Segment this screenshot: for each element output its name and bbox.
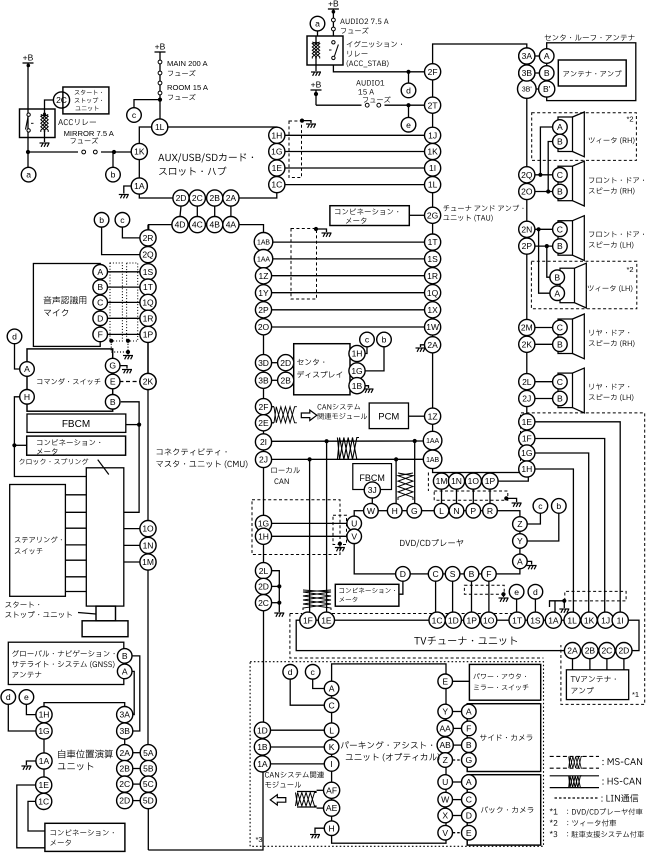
svg-text:F: F bbox=[466, 724, 471, 734]
svg-text:1R: 1R bbox=[427, 271, 438, 281]
svg-text:B: B bbox=[557, 394, 563, 404]
svg-text:1Y: 1Y bbox=[258, 288, 269, 298]
svg-text:2O: 2O bbox=[521, 187, 533, 197]
svg-text:1I: 1I bbox=[429, 163, 436, 173]
svg-text:B: B bbox=[110, 397, 116, 407]
svg-text:b: b bbox=[556, 501, 561, 511]
svg-text:3D: 3D bbox=[258, 358, 269, 368]
svg-text:2Q: 2Q bbox=[142, 250, 154, 260]
svg-text:c: c bbox=[538, 501, 543, 511]
svg-text:1G: 1G bbox=[38, 726, 49, 736]
svg-text:1S: 1S bbox=[427, 254, 438, 264]
svg-text:1J: 1J bbox=[601, 615, 610, 625]
svg-text:1L: 1L bbox=[567, 615, 577, 625]
svg-text:2D: 2D bbox=[618, 646, 629, 656]
svg-text:2E: 2E bbox=[258, 418, 269, 428]
svg-text:C: C bbox=[557, 170, 563, 180]
svg-text:2R: 2R bbox=[143, 233, 154, 243]
svg-text:1E: 1E bbox=[522, 417, 533, 427]
svg-text:5C: 5C bbox=[143, 779, 154, 789]
svg-text:L: L bbox=[439, 506, 444, 516]
svg-text:4B: 4B bbox=[209, 220, 220, 230]
svg-text:1E: 1E bbox=[38, 780, 49, 790]
svg-text:1P: 1P bbox=[485, 476, 496, 486]
svg-text:1O: 1O bbox=[142, 524, 154, 534]
svg-text:Z: Z bbox=[443, 755, 448, 765]
svg-text:1A: 1A bbox=[134, 181, 145, 191]
svg-text:+B: +B bbox=[23, 53, 34, 63]
svg-text:A: A bbox=[544, 51, 550, 61]
svg-text:C: C bbox=[557, 224, 563, 234]
svg-text:3J: 3J bbox=[368, 485, 377, 495]
svg-text:G: G bbox=[465, 755, 472, 765]
svg-text:R: R bbox=[487, 506, 493, 516]
svg-text:4C: 4C bbox=[192, 220, 203, 230]
svg-text:A: A bbox=[466, 707, 472, 717]
svg-text:2A: 2A bbox=[226, 193, 237, 203]
svg-text:A: A bbox=[97, 267, 103, 277]
svg-text:d: d bbox=[288, 667, 293, 677]
svg-text:2B: 2B bbox=[209, 193, 220, 203]
svg-text:A: A bbox=[554, 288, 560, 298]
svg-text:2A: 2A bbox=[567, 646, 578, 656]
svg-text:B: B bbox=[557, 339, 563, 349]
svg-text:1N: 1N bbox=[451, 476, 462, 486]
svg-text:A: A bbox=[517, 557, 523, 567]
svg-text:1C: 1C bbox=[432, 615, 443, 625]
svg-text:G: G bbox=[411, 506, 418, 516]
svg-text:c: c bbox=[120, 215, 125, 225]
svg-text:N: N bbox=[453, 506, 459, 516]
svg-text:c: c bbox=[132, 110, 137, 120]
svg-text:a: a bbox=[26, 170, 31, 180]
svg-text:d: d bbox=[533, 587, 538, 597]
svg-text:1H: 1H bbox=[521, 464, 532, 474]
svg-text:1L: 1L bbox=[428, 180, 438, 190]
svg-text:2D: 2D bbox=[258, 582, 269, 592]
svg-text:3B: 3B bbox=[119, 726, 130, 736]
svg-text:1G: 1G bbox=[521, 448, 532, 458]
svg-text:1D: 1D bbox=[257, 725, 268, 735]
svg-text:1Q: 1Q bbox=[142, 298, 154, 308]
svg-text:X: X bbox=[442, 811, 448, 821]
svg-text:1F: 1F bbox=[303, 615, 313, 625]
svg-text:2K: 2K bbox=[143, 377, 154, 387]
svg-text:1S: 1S bbox=[143, 267, 154, 277]
svg-text:2B: 2B bbox=[119, 764, 130, 774]
svg-text:1O: 1O bbox=[483, 615, 495, 625]
svg-text:AB: AB bbox=[440, 740, 452, 750]
svg-text:1K: 1K bbox=[427, 147, 438, 157]
svg-text:b: b bbox=[382, 335, 387, 345]
svg-text:U: U bbox=[442, 777, 448, 787]
svg-text:3B: 3B bbox=[522, 68, 533, 78]
svg-text:2I: 2I bbox=[260, 437, 267, 447]
svg-text:E: E bbox=[442, 676, 448, 686]
svg-text:D: D bbox=[466, 811, 472, 821]
svg-text:H: H bbox=[392, 506, 398, 516]
svg-text:B: B bbox=[557, 137, 563, 147]
svg-text:2K: 2K bbox=[522, 339, 533, 349]
svg-text:1G: 1G bbox=[258, 519, 269, 529]
svg-text:1H: 1H bbox=[352, 349, 363, 359]
svg-text:3B': 3B' bbox=[522, 87, 532, 94]
svg-text:H: H bbox=[24, 392, 30, 402]
svg-text:1P: 1P bbox=[466, 615, 477, 625]
svg-text:C: C bbox=[328, 700, 334, 710]
svg-text:5A: 5A bbox=[143, 748, 154, 758]
svg-text:2F: 2F bbox=[428, 67, 438, 77]
svg-text:4A: 4A bbox=[226, 220, 237, 230]
svg-text:2J: 2J bbox=[522, 394, 531, 404]
svg-text:2B: 2B bbox=[585, 646, 596, 656]
svg-text:Y: Y bbox=[517, 536, 523, 546]
svg-text:*2: *2 bbox=[626, 265, 633, 274]
svg-text:E: E bbox=[466, 828, 472, 838]
svg-text:I: I bbox=[330, 759, 332, 769]
svg-text:e: e bbox=[406, 120, 411, 130]
svg-text:C: C bbox=[557, 377, 563, 387]
svg-text:B: B bbox=[557, 187, 563, 197]
svg-text:a: a bbox=[315, 19, 320, 29]
svg-text:E: E bbox=[110, 377, 116, 387]
svg-text:2C: 2C bbox=[56, 95, 67, 105]
svg-text:A: A bbox=[466, 777, 472, 787]
svg-text:1T: 1T bbox=[143, 282, 153, 292]
svg-text:1AA: 1AA bbox=[426, 438, 439, 445]
svg-text:PCM: PCM bbox=[378, 412, 399, 423]
svg-text:C: C bbox=[557, 323, 563, 333]
svg-text:2A: 2A bbox=[427, 340, 438, 350]
svg-text:V: V bbox=[351, 531, 357, 541]
svg-text:MAIN 200 A: MAIN 200 A bbox=[167, 59, 208, 68]
svg-text:D: D bbox=[97, 313, 103, 323]
svg-text:1M: 1M bbox=[142, 557, 154, 567]
svg-text:1O: 1O bbox=[468, 476, 480, 486]
svg-text:2L: 2L bbox=[522, 377, 532, 387]
svg-text:1E: 1E bbox=[272, 163, 283, 173]
svg-text:1S: 1S bbox=[530, 615, 541, 625]
svg-text:B: B bbox=[554, 272, 560, 282]
svg-text:1H: 1H bbox=[258, 531, 269, 541]
svg-text:1A: 1A bbox=[548, 615, 559, 625]
svg-text:1M: 1M bbox=[436, 476, 448, 486]
svg-text:b: b bbox=[99, 215, 104, 225]
svg-text:A: A bbox=[329, 684, 335, 694]
svg-text:2G: 2G bbox=[427, 210, 438, 220]
svg-text:1W: 1W bbox=[426, 322, 439, 332]
svg-text:1X: 1X bbox=[427, 305, 438, 315]
svg-text:2C: 2C bbox=[258, 598, 269, 608]
svg-text:A: A bbox=[557, 122, 563, 132]
svg-text:2O: 2O bbox=[258, 322, 270, 332]
svg-text:A: A bbox=[24, 364, 30, 374]
svg-text:1H: 1H bbox=[39, 710, 50, 720]
svg-text:C: C bbox=[97, 298, 103, 308]
svg-text:b: b bbox=[111, 170, 116, 180]
svg-text:1A: 1A bbox=[257, 759, 268, 769]
svg-text:1B: 1B bbox=[352, 381, 363, 391]
svg-text:2B: 2B bbox=[280, 375, 291, 385]
svg-text:1C: 1C bbox=[38, 797, 49, 807]
svg-text:c: c bbox=[311, 667, 316, 677]
svg-text:1D: 1D bbox=[448, 615, 459, 625]
svg-text:1Q: 1Q bbox=[427, 288, 439, 298]
svg-text:AE: AE bbox=[326, 803, 338, 813]
svg-text:Y: Y bbox=[442, 707, 448, 717]
svg-text:1K: 1K bbox=[134, 147, 145, 157]
svg-text:2L: 2L bbox=[259, 566, 269, 576]
svg-text:2C: 2C bbox=[119, 779, 130, 789]
svg-text:*3: *3 bbox=[255, 835, 262, 844]
svg-text:AA: AA bbox=[440, 724, 452, 734]
svg-text:C: C bbox=[432, 569, 438, 579]
svg-text:1Z: 1Z bbox=[259, 271, 269, 281]
svg-text:MIRROR 7.5 A: MIRROR 7.5 A bbox=[64, 129, 115, 138]
svg-text:4D: 4D bbox=[175, 220, 186, 230]
svg-text:5D: 5D bbox=[143, 796, 154, 806]
svg-text:d: d bbox=[6, 692, 11, 702]
svg-text:e: e bbox=[24, 692, 29, 702]
svg-text:1Z: 1Z bbox=[428, 411, 438, 421]
svg-text:1F: 1F bbox=[522, 434, 532, 444]
svg-text:*1: *1 bbox=[632, 690, 639, 699]
svg-text:D: D bbox=[400, 569, 406, 579]
svg-text:2P: 2P bbox=[522, 241, 533, 251]
svg-text:3A: 3A bbox=[522, 51, 533, 61]
svg-text:+B: +B bbox=[311, 80, 322, 90]
svg-text:FBCM: FBCM bbox=[62, 419, 90, 430]
svg-text:2N: 2N bbox=[521, 224, 532, 234]
svg-text:B: B bbox=[544, 68, 550, 78]
svg-text:A: A bbox=[122, 667, 128, 677]
svg-text:Z: Z bbox=[517, 519, 522, 529]
svg-text:K: K bbox=[329, 742, 335, 752]
svg-text:B: B bbox=[466, 740, 472, 750]
svg-text:2A: 2A bbox=[119, 748, 130, 758]
svg-text:1T: 1T bbox=[512, 615, 522, 625]
svg-text:d: d bbox=[406, 86, 411, 96]
svg-text:e: e bbox=[514, 587, 519, 597]
svg-text:c: c bbox=[365, 335, 370, 345]
svg-text:1N: 1N bbox=[143, 541, 154, 551]
svg-text:G: G bbox=[109, 361, 116, 371]
svg-text:*2: *2 bbox=[626, 115, 633, 124]
svg-text:F: F bbox=[486, 569, 491, 579]
svg-text:5B: 5B bbox=[143, 764, 154, 774]
svg-text:2D: 2D bbox=[176, 193, 187, 203]
svg-text:B: B bbox=[557, 241, 563, 251]
svg-text:W: W bbox=[441, 795, 450, 805]
svg-text:2T: 2T bbox=[428, 100, 438, 110]
svg-text:2C: 2C bbox=[192, 193, 203, 203]
svg-text:2J: 2J bbox=[259, 455, 268, 465]
svg-text:2D: 2D bbox=[119, 796, 130, 806]
svg-text:ROOM 15 A: ROOM 15 A bbox=[167, 83, 209, 92]
svg-text:1K: 1K bbox=[584, 615, 595, 625]
svg-text:U: U bbox=[351, 519, 357, 529]
svg-text:2D: 2D bbox=[280, 358, 291, 368]
svg-text:H: H bbox=[328, 823, 334, 833]
svg-text:2P: 2P bbox=[258, 305, 269, 315]
svg-text:1G: 1G bbox=[271, 147, 282, 157]
svg-text:F: F bbox=[98, 330, 103, 340]
svg-text:2F: 2F bbox=[259, 402, 269, 412]
svg-text:1C: 1C bbox=[271, 180, 282, 190]
svg-text:3A: 3A bbox=[119, 710, 130, 720]
svg-text:2M: 2M bbox=[521, 323, 533, 333]
svg-text:B: B bbox=[97, 282, 103, 292]
svg-text:2Q: 2Q bbox=[521, 170, 533, 180]
svg-text:1H: 1H bbox=[271, 130, 282, 140]
svg-text:B: B bbox=[122, 651, 128, 661]
svg-text:1E: 1E bbox=[321, 615, 332, 625]
svg-text:1I: 1I bbox=[617, 615, 624, 625]
svg-text:AF: AF bbox=[326, 785, 337, 795]
svg-text:W: W bbox=[367, 506, 376, 516]
svg-text:1G: 1G bbox=[351, 366, 362, 376]
svg-text:L: L bbox=[329, 725, 334, 735]
svg-text:1T: 1T bbox=[428, 237, 438, 247]
svg-text:1B: 1B bbox=[257, 742, 268, 752]
svg-text:1L: 1L bbox=[155, 122, 165, 132]
svg-text:P: P bbox=[470, 506, 476, 516]
svg-text:+B: +B bbox=[328, 0, 339, 9]
svg-text:1R: 1R bbox=[143, 313, 154, 323]
svg-text:+B: +B bbox=[155, 42, 166, 52]
svg-text:B: B bbox=[469, 569, 475, 579]
svg-text:2C: 2C bbox=[601, 646, 612, 656]
svg-text:1J: 1J bbox=[428, 130, 437, 140]
svg-text:1AA: 1AA bbox=[257, 256, 270, 263]
svg-text:1AB: 1AB bbox=[426, 457, 439, 464]
svg-text:1P: 1P bbox=[143, 330, 154, 340]
svg-text:C: C bbox=[466, 795, 472, 805]
svg-text:3B: 3B bbox=[258, 375, 269, 385]
svg-text:1A: 1A bbox=[39, 756, 50, 766]
svg-text:S: S bbox=[450, 569, 456, 579]
svg-text:d: d bbox=[12, 332, 17, 342]
svg-text:B': B' bbox=[543, 84, 551, 94]
svg-text:V: V bbox=[442, 828, 448, 838]
svg-text:1AB: 1AB bbox=[257, 239, 270, 246]
